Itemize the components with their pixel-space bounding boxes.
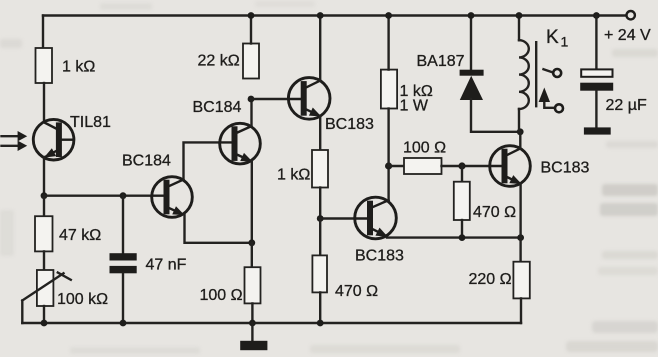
svg-text:22 kΩ: 22 kΩ	[198, 53, 240, 70]
svg-text:100 Ω: 100 Ω	[200, 287, 243, 304]
transistor Q4 BC183 (bottom middle)	[355, 197, 404, 264]
wire 220R to bottom rail end	[520, 298, 522, 323]
junction dot 100R bottom / ground stub	[249, 320, 256, 327]
capacitor C 22 uF electrolytic	[580, 16, 647, 128]
wire diode anode to node J	[471, 99, 520, 132]
svg-text:1: 1	[561, 34, 569, 50]
capacitor C 47 nF	[110, 253, 187, 273]
wire 470 right to emitter rail	[461, 220, 463, 238]
wire Q5 collector to node J	[519, 132, 521, 149]
ground symbol (right, cap)	[584, 127, 611, 134]
svg-text:TIL81: TIL81	[70, 114, 111, 131]
wire node I to 220R	[519, 238, 521, 262]
wire Q1 emitter down and right to node C	[185, 215, 252, 243]
wire pot wiper to bottom rail	[21, 301, 23, 324]
wire Q1 collector up and right to Q2 base	[184, 142, 220, 179]
wire node A to BC184 Q1 base	[44, 194, 152, 196]
phototransistor TIL81 (mirrored NPN)	[33, 114, 111, 160]
wire node D to Q3 base	[251, 98, 289, 100]
resistor R 100 Ohm (horizontal)	[404, 158, 442, 174]
node D junction below 22k	[248, 96, 255, 103]
wire 470 to bottom rail	[319, 292, 321, 323]
wire bottom rail	[22, 322, 521, 324]
light arrow lower into TIL81	[2, 141, 28, 151]
svg-text:47 kΩ: 47 kΩ	[59, 227, 101, 244]
node C junction (emitters / 100R)	[248, 239, 255, 246]
relay K1 coil	[519, 16, 569, 132]
diode D BA187	[417, 16, 484, 101]
svg-text:220 Ω: 220 Ω	[469, 271, 512, 288]
transistor Q5 BC183 (right)	[490, 146, 590, 187]
svg-text:BC184: BC184	[122, 153, 171, 170]
svg-text:+ 24 V: + 24 V	[604, 27, 651, 44]
resistor R 100 Ohm (bottom middle)	[245, 267, 261, 303]
wire 47nF branch down	[122, 196, 124, 254]
resistor R 470 Ohm (right)	[454, 182, 470, 220]
node B junction (47nF tap)	[120, 192, 127, 199]
wire 1k to node E	[319, 188, 321, 219]
resistor R 220 Ohm	[513, 262, 529, 299]
svg-text:1 kΩ: 1 kΩ	[62, 59, 95, 76]
svg-text:470 Ω: 470 Ω	[335, 283, 378, 300]
terminal +24V	[604, 11, 651, 44]
transistor Q2 BC184 (upper middle)	[193, 99, 261, 164]
wire 47nF to bottom rail	[122, 273, 124, 323]
wire Q3 emitter to R 1k	[319, 116, 321, 150]
junction dot coil top	[516, 12, 523, 19]
wire top supply rail	[43, 14, 626, 16]
wire Q5 emitter to node I	[519, 184, 521, 238]
node H junction (470R bottom)	[459, 234, 466, 241]
wire Q2 collector to 22k node	[250, 99, 252, 126]
svg-text:BC184: BC184	[193, 99, 242, 116]
svg-text:K: K	[546, 27, 559, 48]
resistor R 47 kOhm	[35, 216, 53, 251]
wire left column from rail to R1	[42, 16, 44, 49]
ground stub wire	[251, 323, 253, 341]
wire rail to 22k	[250, 16, 252, 44]
svg-text:1 W: 1 W	[400, 98, 429, 115]
svg-text:22 µF: 22 µF	[606, 97, 647, 114]
potentiometer R 100 kOhm (trimmer)	[22, 270, 108, 308]
junction dot 470R bottom	[317, 320, 324, 327]
resistor R 1 kOhm (top left)	[36, 48, 53, 83]
svg-text:47 nF: 47 nF	[146, 257, 187, 274]
node I junction (Q5 emitter / 220R)	[517, 234, 524, 241]
junction dot 22k top	[248, 12, 255, 19]
svg-text:BC183: BC183	[541, 160, 590, 177]
node G junction (100R / 470R / base)	[458, 162, 465, 169]
svg-text:BC183: BC183	[325, 116, 374, 133]
junction dot 47nF bottom	[120, 320, 127, 327]
wire 1k1W to node F	[387, 109, 389, 167]
node E junction	[317, 215, 324, 222]
svg-text:470 Ω: 470 Ω	[473, 204, 516, 221]
wire Q2 emitter down to node C	[251, 161, 253, 243]
relay contact moving arm with arrow	[539, 88, 563, 113]
resistor R 470 Ohm (middle)	[312, 255, 327, 292]
svg-text:BC183: BC183	[355, 248, 404, 265]
node F junction (1k1W / 100R)	[385, 162, 392, 169]
svg-text:100 kΩ: 100 kΩ	[57, 291, 108, 308]
svg-text:BA187: BA187	[417, 53, 465, 70]
svg-text:1 kΩ: 1 kΩ	[277, 167, 310, 184]
wire node G down to 470	[461, 166, 463, 182]
resistor R 1 kOhm (middle)	[312, 150, 328, 188]
wire node C to R 100	[251, 243, 253, 267]
junction dot 1k1W top	[385, 12, 392, 19]
wire node E to Q4 base	[320, 217, 355, 219]
transistor Q3 BC183 (top middle)	[288, 78, 374, 133]
wire node F to R100 horizontal	[389, 165, 404, 167]
wire Q4 collector up to node F	[387, 166, 389, 200]
wire node E down to 470	[319, 219, 321, 256]
junction dot diode top	[468, 12, 475, 19]
wire node A to 47k	[43, 196, 45, 217]
wire TIL81 emitter to node A	[43, 157, 45, 196]
resistor R 22 kOhm	[243, 44, 259, 79]
junction dot Q3 collector	[317, 12, 324, 19]
relay contact upper terminal	[544, 69, 562, 77]
junction dot cap top	[593, 12, 600, 19]
node J junction (diode / coil / collector)	[517, 128, 524, 135]
light arrow upper into TIL81	[2, 131, 28, 141]
wire R100h to Q5 base	[442, 165, 491, 167]
svg-text:100 Ω: 100 Ω	[403, 140, 446, 157]
wire 47k to pot	[43, 251, 45, 270]
wire rail to 1k1W	[387, 16, 389, 70]
resistor R 1 kOhm 1 W	[381, 70, 397, 109]
junction dot pot bottom	[41, 320, 48, 327]
transistor Q1 BC184 (lower left)	[122, 153, 192, 218]
wire R1 to TIL81 collector	[43, 83, 45, 122]
wire Q4 emitter rail to node G and H	[387, 236, 521, 238]
wire R100 to bottom rail	[251, 303, 253, 323]
ground symbol (bottom)	[240, 341, 267, 350]
node A junction (emitter / 47k / base wire)	[41, 192, 48, 199]
wire pot bottom to bottom rail	[43, 306, 45, 323]
wire Q3 collector to rail	[319, 16, 321, 81]
